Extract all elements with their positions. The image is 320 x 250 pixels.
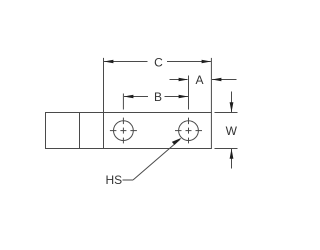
extension line W bottom bbox=[215, 148, 238, 150]
arrowhead W top (points down) bbox=[230, 102, 234, 112]
arrowhead A right (points left) bbox=[212, 78, 222, 82]
arrowhead B left bbox=[124, 95, 133, 99]
extension line B left (left hole center) bbox=[122, 94, 124, 110]
extension line shared B right / A left (right hole center) bbox=[188, 76, 190, 110]
centerline vertical left hole bbox=[122, 118, 124, 125]
svg-text:C: C bbox=[154, 56, 163, 70]
leader line HS diagonal bbox=[133, 139, 180, 180]
arrowhead HS leader (points up-right at circle) bbox=[172, 138, 182, 145]
arrowhead C left bbox=[104, 60, 114, 64]
dimension line B bbox=[124, 96, 148, 98]
dimension line A right tail bbox=[212, 79, 237, 81]
plate divider line 1 bbox=[79, 113, 81, 149]
hole circle left bbox=[114, 121, 134, 141]
svg-text:HS: HS bbox=[106, 173, 123, 187]
hole circle right bbox=[179, 121, 199, 141]
arrowhead W bottom (points up) bbox=[230, 149, 234, 159]
centerline horizontal left hole bbox=[110, 130, 117, 132]
extension line right (C/A) above plate right edge bbox=[210, 58, 212, 113]
plate divider line 2 / extension line for C bbox=[103, 58, 105, 149]
arrowhead C right bbox=[202, 60, 212, 64]
leader line HS horizontal bbox=[123, 179, 134, 181]
centerline horizontal right hole bbox=[175, 130, 182, 132]
svg-text:B: B bbox=[154, 90, 162, 104]
arrowhead A left (points right) bbox=[179, 78, 189, 82]
extension line W top bbox=[215, 112, 238, 114]
centerline vertical right hole bbox=[188, 118, 190, 125]
dimension line W top tail bbox=[231, 92, 233, 113]
svg-text:A: A bbox=[195, 73, 203, 87]
dimension line W bottom tail bbox=[231, 149, 233, 169]
dimension line C bbox=[104, 61, 148, 63]
dimension line A left tail bbox=[170, 79, 188, 81]
svg-text:W: W bbox=[226, 124, 238, 138]
plate body outline bbox=[46, 113, 212, 149]
arrowhead B right bbox=[179, 95, 189, 99]
